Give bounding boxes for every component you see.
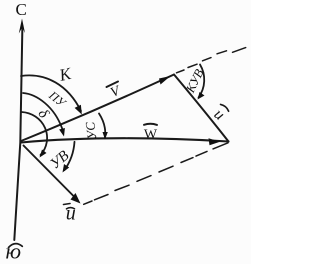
small dash left of wind arrow tip — [64, 204, 71, 205]
dashed extension of V beyond triangle tip — [177, 48, 246, 73]
arc УС (drift angle, V to W) — [99, 114, 105, 138]
svg-text:u: u — [66, 203, 76, 225]
svg-text:УВ: УВ — [47, 148, 72, 173]
arc ПУ (track angle, axis to W) — [23, 93, 63, 131]
svg-text:К: К — [57, 64, 75, 85]
arc δ arrowhead — [40, 150, 47, 158]
arc К arrowhead — [75, 105, 82, 115]
wind vector u from origin (down-right) — [24, 146, 75, 197]
label Ю (south) with hat — [6, 239, 23, 264]
vector V (airspeed) — [21, 75, 174, 142]
wind vector u arrowhead — [71, 193, 81, 204]
svg-text:W: W — [144, 127, 158, 142]
arc КУВ (course wind angle at V tip) — [199, 65, 205, 98]
vector V arrowhead — [159, 76, 171, 85]
side U of triangle (wind leg from V tip to W tip) — [174, 75, 229, 142]
arc УС arrowhead — [103, 132, 108, 140]
arc К (course angle, axis to V) — [21, 75, 81, 111]
arc δ (wind direction angle, axis to wind vector) — [22, 112, 48, 155]
north axis (C–Yu meridian line) — [14, 26, 22, 240]
label u with bar on hypotenuse (rotated) — [209, 103, 229, 124]
dashed line from wind tip to W tip — [84, 143, 228, 205]
arc КУВ arrowhead — [198, 92, 205, 100]
label V with overbar — [107, 82, 124, 101]
svg-text:УС: УС — [82, 121, 99, 140]
arc УВ arrowhead — [63, 164, 70, 173]
vector W arrowhead — [209, 138, 221, 145]
arc ПУ arrowhead — [59, 128, 65, 137]
label W with overbar — [144, 124, 158, 143]
label u with breve below wind arrow — [66, 203, 76, 225]
vector W (ground speed) — [21, 138, 229, 142]
svg-text:С: С — [16, 0, 27, 19]
arc УВ (wind angle, W to wind vector) — [65, 142, 75, 170]
svg-text:ю: ю — [6, 239, 22, 264]
north axis arrowhead — [19, 19, 25, 34]
svg-text:δ: δ — [35, 106, 53, 122]
